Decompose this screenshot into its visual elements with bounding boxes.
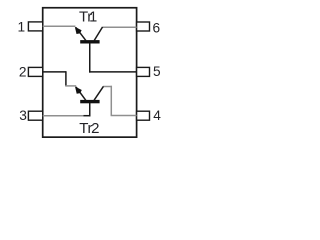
wire pin2 horizontal (black) [43,71,66,73]
svg-text:2: 2 [91,120,99,137]
wire pin3 to Tr2 base (gray) [43,115,84,117]
wire pin1 to Tr1 emitter (gray) [43,25,76,27]
wire pin2 down leg (black) [65,71,67,86]
pin 2 box [28,67,42,76]
pin 5 box [137,67,150,76]
transistor Tr2 base bar [80,100,99,103]
wire Tr2 collector horizontal (gray) [103,86,112,88]
transistor Tr1 emitter line [76,27,86,40]
wire to Tr2 emitter (gray) [65,85,76,87]
pin 1 box [28,22,42,31]
svg-text:1: 1 [17,20,25,35]
transistor Tr1 collector line [94,27,102,41]
wire Tr1 collector to pin6 (gray) [103,26,137,28]
pin 6 box [137,22,150,31]
svg-text:6: 6 [153,21,161,36]
transistor Tr2 collector line [94,86,103,100]
svg-text:5: 5 [153,64,161,79]
transistor Tr1 emitter arrow [75,27,82,34]
transistor Tr1 base bar [80,40,99,43]
wire to pin4 (gray) [111,115,137,117]
transistor Tr2 emitter arrow [75,87,82,94]
package body outline [43,8,137,137]
pin 3 box [28,111,42,120]
transistor Tr2 base lead [89,103,91,117]
transistor Tr2 emitter line [76,87,86,100]
svg-text:4: 4 [153,108,161,123]
pin 4 box [137,111,150,120]
wire Tr2 collector down leg (gray) [110,86,112,116]
wire Tr2 base corner (black) [84,115,91,117]
svg-text:3: 3 [19,108,27,123]
transistor Tr1 base lead [89,43,91,73]
wire Tr1 base to pin5 (black) [89,71,136,73]
svg-text:2: 2 [19,64,27,79]
svg-text:1: 1 [89,10,97,26]
